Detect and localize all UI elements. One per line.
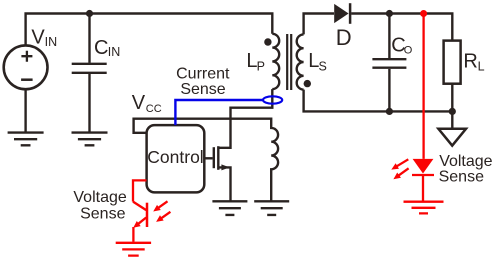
- svg-text:P: P: [257, 60, 265, 74]
- svg-text:IN: IN: [108, 45, 121, 59]
- svg-text:V: V: [31, 27, 45, 49]
- svg-text:Voltage: Voltage: [73, 189, 126, 206]
- svg-text:IN: IN: [45, 35, 58, 49]
- svg-text:V: V: [132, 92, 146, 114]
- svg-text:Sense: Sense: [180, 81, 225, 98]
- svg-text:Sense: Sense: [439, 168, 484, 185]
- svg-text:R: R: [463, 51, 477, 73]
- svg-text:Control: Control: [147, 147, 203, 167]
- svg-text:O: O: [404, 44, 413, 56]
- svg-text:C: C: [94, 37, 108, 59]
- svg-text:CC: CC: [146, 103, 162, 115]
- svg-text:D: D: [336, 25, 352, 50]
- svg-text:Voltage: Voltage: [439, 153, 492, 170]
- svg-text:L: L: [478, 60, 485, 74]
- svg-text:S: S: [319, 60, 327, 74]
- svg-text:Sense: Sense: [80, 205, 125, 222]
